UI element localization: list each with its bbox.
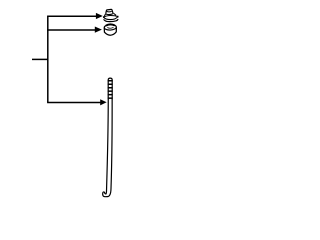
ribbed top section [108, 78, 112, 99]
flange rim bottom [104, 17, 118, 20]
arrowhead to part 2 [95, 27, 102, 33]
wire branch 3 horizontal [47, 102, 101, 104]
recess smile [107, 26, 113, 29]
flange rim top [104, 15, 118, 17]
skirt [104, 14, 116, 17]
knob base ledge [105, 13, 113, 14]
rib bands [108, 81, 113, 98]
rod shaft and J-foot [103, 99, 112, 197]
support rod (part 3) [103, 78, 113, 197]
arrowhead to rod [100, 99, 106, 105]
top ellipse thick top arc [106, 24, 115, 25]
wire trunk vertical callout line [47, 16, 49, 102]
cap (part 1) [104, 9, 118, 21]
arrowhead to part 1 [96, 13, 103, 19]
knob top face front edge [107, 10, 112, 13]
wire left tick [32, 58, 48, 60]
wire branch 1 horizontal [47, 15, 96, 17]
knob outline [106, 9, 113, 14]
wire branch 2 horizontal [47, 29, 95, 31]
top ellipse [104, 24, 116, 30]
flange rim left end [103, 16, 105, 18]
grommet disc (part 2) [104, 24, 116, 35]
flange bottom roll [104, 19, 118, 22]
side walls and bottom arc [104, 28, 116, 36]
flange rim right end [117, 16, 119, 18]
